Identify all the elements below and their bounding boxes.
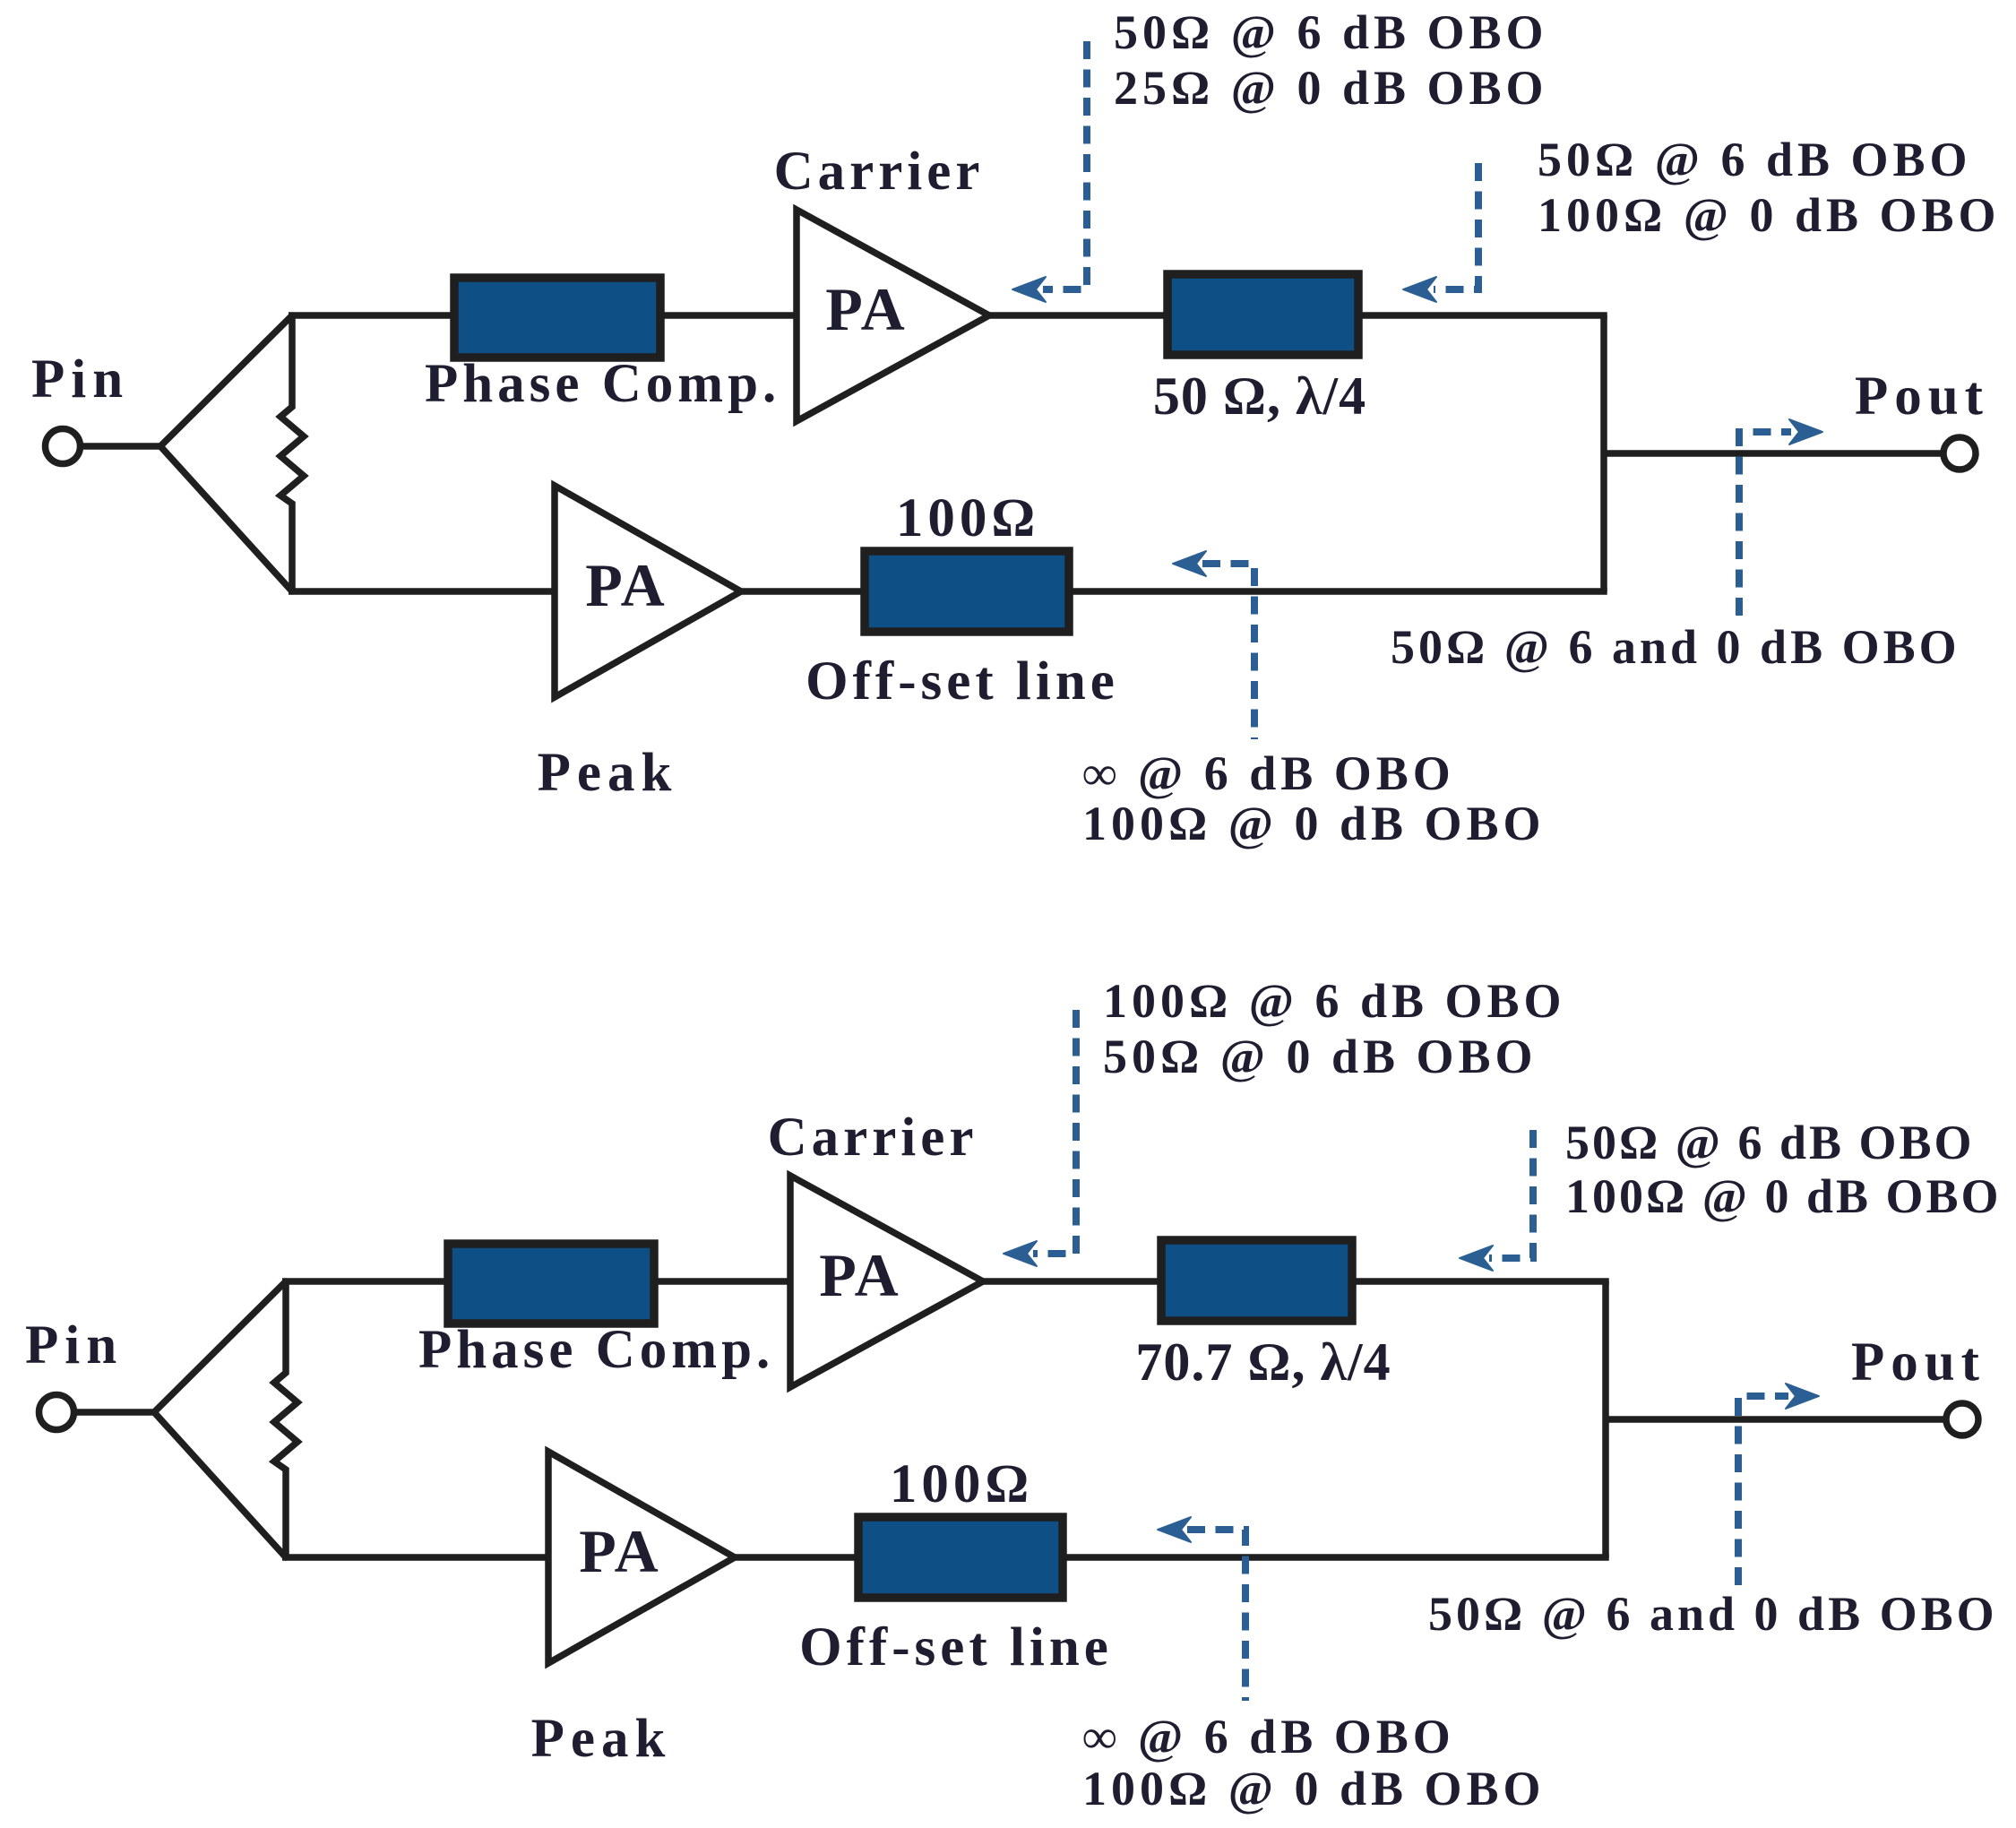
svg-text:100Ω @ 0 dB OBO: 100Ω @ 0 dB OBO [1565,1169,2002,1223]
wire input lead (bottom diagram) [77,1409,154,1416]
wire peak PA to offset line (bottom diagram) [735,1554,858,1561]
svg-text:50Ω @ 6 dB OBO: 50Ω @ 6 dB OBO [1114,5,1548,59]
quarter-wave transformer line (top diagram) [1167,274,1358,355]
svg-text:PA: PA [825,275,908,343]
output port terminal (bottom diagram) [1946,1403,1978,1436]
splitter lower arm wire (top diagram) [160,446,292,591]
svg-text:PA: PA [819,1241,901,1309]
summing node vertical wire (bottom diagram) [1602,1281,1609,1557]
svg-text:70.7 Ω, λ/4: 70.7 Ω, λ/4 [1135,1332,1391,1392]
wire splitter to peak PA (top diagram) [289,588,555,595]
svg-text:50Ω @ 6 and 0 dB OBO: 50Ω @ 6 and 0 dB OBO [1391,620,1960,674]
wire splitter to phase comp (bottom diagram) [282,1278,452,1285]
svg-text:50Ω @ 6 dB OBO: 50Ω @ 6 dB OBO [1565,1116,1975,1169]
wire offset line to summing node (top diagram) [1069,588,1607,595]
annotation output load dashed arrow (top diagram) [1739,419,1822,616]
annotation carrier PA load dashed arrow (bottom diagram) [1004,1010,1076,1266]
wire carrier PA to quarter-wave (bottom diagram) [983,1278,1161,1285]
annotation quarter-wave load dashed arrow (top diagram) [1403,163,1478,302]
annotation peak branch text (bottom diagram) [1082,1710,1546,1815]
svg-text:∞ @ 6 dB OBO: ∞ @ 6 dB OBO [1082,1710,1455,1763]
wire phase comp to carrier PA (bottom diagram) [654,1278,790,1285]
output port terminal (top diagram) [1943,437,1976,470]
annotation peak branch dashed arrow (top diagram) [1173,551,1254,739]
annotation carrier PA load text (top diagram) [1114,5,1548,115]
splitter upper arm wire (top diagram) [160,315,292,446]
svg-text:PA: PA [585,551,668,619]
summing node vertical wire (top diagram) [1600,315,1607,591]
svg-text:100Ω @ 0 dB OBO: 100Ω @ 0 dB OBO [1082,1762,1546,1815]
wire output lead (top diagram) [1604,450,1943,457]
annotation quarter-wave load text (top diagram) [1538,133,2001,242]
annotation quarter-wave load text (bottom diagram) [1565,1116,2002,1223]
svg-text:50 Ω, λ/4: 50 Ω, λ/4 [1153,366,1366,426]
svg-text:Pout: Pout [1851,1332,1986,1393]
svg-text:Off-set line: Off-set line [799,1617,1113,1677]
svg-text:Pout: Pout [1855,366,1989,427]
splitter upper arm wire (bottom diagram) [154,1281,286,1412]
annotation output load dashed arrow (bottom diagram) [1738,1384,1819,1585]
carrier amplifier PA triangle (bottom diagram) [790,1176,983,1387]
isolation resistor (top diagram) [280,315,304,591]
annotation carrier PA load text (bottom diagram) [1103,974,1566,1083]
svg-text:Peak: Peak [538,743,678,803]
phase compensation line (bottom diagram) [448,1244,654,1324]
wire peak PA to offset line (top diagram) [741,588,865,595]
svg-text:100Ω @ 0 dB OBO: 100Ω @ 0 dB OBO [1538,188,2001,242]
phase compensation line (top diagram) [454,278,660,358]
svg-text:50Ω @ 6 and 0 dB OBO: 50Ω @ 6 and 0 dB OBO [1428,1587,1998,1641]
svg-text:PA: PA [579,1517,661,1585]
input port terminal (top diagram) [46,429,81,464]
splitter lower arm wire (bottom diagram) [154,1412,286,1557]
wire phase comp to carrier PA (top diagram) [660,312,797,319]
input port terminal (bottom diagram) [39,1395,74,1430]
svg-text:50Ω @ 6 dB OBO: 50Ω @ 6 dB OBO [1538,133,1972,186]
svg-text:Phase Comp.: Phase Comp. [425,354,780,414]
annotation carrier PA load dashed arrow (top diagram) [1012,41,1087,302]
wire quarter-wave to summing node (top diagram) [1358,312,1607,319]
isolation resistor (bottom diagram) [274,1281,297,1557]
carrier amplifier PA triangle (top diagram) [797,210,989,421]
annotation peak branch dashed arrow (bottom diagram) [1158,1517,1245,1701]
peak amplifier PA triangle (top diagram) [555,486,741,697]
wire offset line to summing node (bottom diagram) [1063,1554,1609,1561]
svg-text:Carrier: Carrier [768,1108,978,1168]
svg-text:Carrier: Carrier [774,142,985,202]
offset line (top diagram) [865,551,1069,632]
svg-text:50Ω @ 0 dB OBO: 50Ω @ 0 dB OBO [1103,1030,1538,1083]
wire output lead (bottom diagram) [1606,1416,1945,1423]
quarter-wave transformer line (bottom diagram) [1161,1240,1352,1321]
svg-text:Pin: Pin [31,349,129,410]
svg-text:∞ @ 6 dB OBO: ∞ @ 6 dB OBO [1082,746,1455,800]
svg-text:100Ω @ 6 dB OBO: 100Ω @ 6 dB OBO [1103,974,1566,1028]
svg-text:25Ω @ 0 dB OBO: 25Ω @ 0 dB OBO [1114,61,1548,115]
wire input lead (top diagram) [83,443,160,450]
svg-text:Pin: Pin [25,1315,123,1375]
annotation peak branch text (top diagram) [1082,746,1546,850]
svg-text:Off-set line: Off-set line [806,651,1119,711]
svg-text:Phase Comp.: Phase Comp. [418,1320,774,1380]
svg-text:Peak: Peak [531,1709,672,1769]
annotation quarter-wave load dashed arrow (bottom diagram) [1460,1130,1533,1271]
wire carrier PA to quarter-wave (top diagram) [989,312,1167,319]
peak amplifier PA triangle (bottom diagram) [548,1452,735,1663]
wire splitter to phase comp (top diagram) [289,312,458,319]
offset line (bottom diagram) [858,1517,1063,1598]
svg-text:100Ω: 100Ω [890,1454,1033,1514]
wire quarter-wave to summing node (bottom diagram) [1352,1278,1609,1285]
wire splitter to peak PA (bottom diagram) [282,1554,548,1561]
svg-text:100Ω @ 0 dB OBO: 100Ω @ 0 dB OBO [1082,797,1546,850]
svg-text:100Ω: 100Ω [896,488,1039,548]
